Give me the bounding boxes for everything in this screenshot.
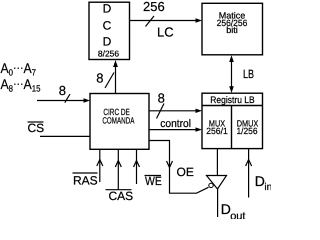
wire MUX output to buffer input	[216, 149, 218, 175]
svg-text:256/1: 256/1	[206, 126, 228, 136]
svg-text:A8···A15: A8···A15	[1, 76, 41, 93]
svg-text:in: in	[264, 182, 271, 193]
svg-text:A0···A7: A0···A7	[1, 60, 37, 77]
svg-text:8/256: 8/256	[98, 49, 120, 59]
svg-text:RAS: RAS	[73, 173, 98, 187]
wire WE arrow into CIRC	[134, 150, 140, 185]
svg-text:Registru LB: Registru LB	[210, 95, 254, 106]
decoder U1 DCD 8/256	[89, 2, 130, 60]
svg-text:256: 256	[143, 0, 165, 14]
svg-text:1/256: 1/256	[236, 126, 257, 136]
svg-text:8: 8	[59, 83, 66, 98]
svg-text:D: D	[103, 2, 112, 16]
svg-text:8: 8	[158, 91, 165, 106]
svg-text:out: out	[230, 211, 245, 220]
svg-text:biti: biti	[226, 25, 238, 35]
svg-text:8: 8	[96, 71, 103, 86]
memory matrix block Matice 256/256 biti	[202, 3, 263, 55]
wire column data 8: CIRC to Registru with arrow and slash	[149, 104, 202, 119]
wire RAS arrow into CIRC	[97, 150, 103, 183]
wire OE: CIRC to buffer enable with down arrow	[149, 141, 209, 194]
wire row address 8: CIRC to DCD with arrow and slash	[105, 60, 118, 94]
wire CS into CIRC	[40, 135, 91, 137]
svg-text:CAS: CAS	[109, 189, 134, 203]
svg-text:COMANDA: COMANDA	[102, 115, 134, 125]
label RAS with overline	[73, 173, 98, 187]
svg-text:D: D	[103, 34, 112, 48]
register block Registru LB with MUX 256/1 and DMUX 1/256	[202, 93, 263, 148]
wire CAS arrow into CIRC	[115, 150, 121, 190]
label CS with overline	[28, 121, 45, 135]
wire LB: Matice to Registru, double arrow	[229, 55, 234, 93]
svg-text:OE: OE	[177, 165, 194, 179]
svg-text:control: control	[160, 118, 191, 130]
control block CIRC DE COMANDA	[90, 94, 149, 150]
wire address bus into CIRC with arrow and slash	[37, 94, 90, 103]
wire control: CIRC to Registru with arrow	[149, 127, 202, 131]
svg-text:C: C	[103, 19, 112, 33]
svg-text:CS: CS	[28, 121, 45, 135]
wire LC bus: DCD to Matice with arrow	[130, 16, 203, 27]
tri-state buffer with enable bubble	[207, 176, 227, 190]
svg-text:LC: LC	[157, 25, 174, 40]
wire Din into DMUX with up arrow	[246, 149, 252, 198]
label WE with overline	[145, 174, 162, 188]
svg-text:WE: WE	[145, 174, 162, 188]
svg-text:LB: LB	[243, 67, 254, 81]
label CAS with overline	[106, 189, 134, 203]
wire Dout from buffer	[217, 189, 219, 217]
